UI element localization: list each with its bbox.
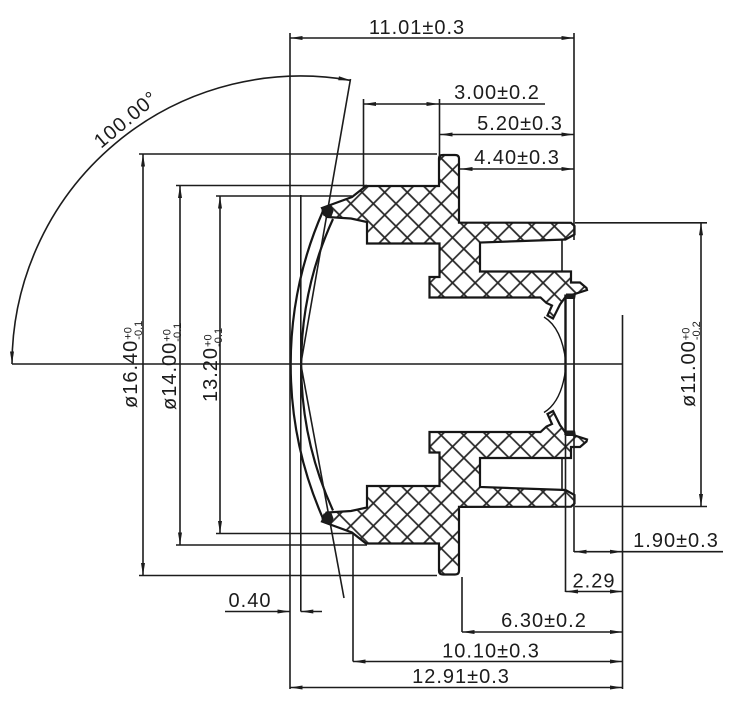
ext stem right bottom x=462	[461, 577, 463, 632]
dim 1.90	[574, 551, 723, 553]
svg-text:4.40±0.3: 4.40±0.3	[474, 147, 560, 169]
svg-text:1.90±0.3: 1.90±0.3	[633, 530, 719, 552]
svg-text:10.10±0.3: 10.10±0.3	[442, 641, 540, 663]
dim 10.10	[353, 661, 623, 663]
dim 6.30	[462, 631, 623, 633]
svg-text:11.01±0.3: 11.01±0.3	[369, 17, 465, 39]
svg-text:100.00°: 100.00°	[90, 87, 162, 153]
svg-text:2.29: 2.29	[573, 571, 616, 593]
ext line flange left x=363.5	[363, 99, 365, 187]
dim 12.91	[290, 687, 623, 689]
svg-text:3.00±0.2: 3.00±0.2	[454, 82, 540, 104]
svg-text:ø14.00+0-0.1: ø14.00+0-0.1	[159, 323, 184, 410]
ext line front plane x=290	[289, 33, 291, 689]
ext line back face x=574	[573, 33, 575, 240]
svg-text:ø11.00+0-0.2: ø11.00+0-0.2	[678, 321, 703, 407]
dim 2.29	[566, 591, 623, 593]
ray lower	[301, 364, 344, 598]
dim dia16.40	[142, 154, 144, 576]
dim 3.00	[364, 103, 546, 105]
angle arc 100deg	[12, 76, 351, 364]
lens front surface arc inner	[301, 219, 333, 511]
holder section (top)	[322, 155, 587, 365]
ext line stem left x=439.5	[439, 99, 441, 157]
holder section (bottom, mirrored)	[322, 365, 587, 575]
dim 4.40	[460, 168, 574, 170]
dim 13.20	[219, 196, 221, 534]
svg-text:13.20+0-0.1: 13.20+0-0.1	[200, 328, 225, 402]
ext lip x=353	[352, 534, 354, 662]
dim dia14.00	[179, 186, 181, 546]
centerline	[12, 363, 623, 365]
ext right x=622.5	[622, 315, 624, 689]
svg-text:6.30±0.2: 6.30±0.2	[501, 610, 587, 632]
lens front surface arc outer	[291, 211, 323, 519]
dim 11.01	[290, 37, 574, 39]
ext lens rear lines down	[565, 435, 567, 592]
dim 0.40	[225, 611, 290, 613]
svg-text:12.91±0.3: 12.91±0.3	[412, 666, 510, 688]
svg-text:ø16.40+0-0.1: ø16.40+0-0.1	[120, 321, 145, 408]
dim dia11.00	[575, 222, 707, 224]
svg-text:5.20±0.3: 5.20±0.3	[477, 113, 563, 135]
svg-text:0.40: 0.40	[229, 590, 272, 612]
lens vertex plane line	[300, 195, 302, 612]
ray upper 100deg leg	[301, 79, 351, 364]
dim 5.20	[440, 134, 574, 136]
